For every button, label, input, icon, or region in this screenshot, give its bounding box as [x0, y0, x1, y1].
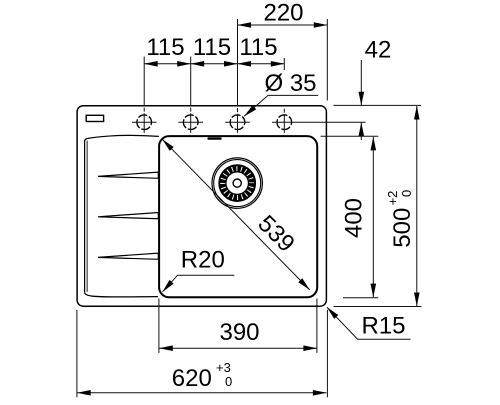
reference line sink bottom (500) [334, 306, 422, 308]
extension line above tap hole 1 [143, 57, 145, 133]
extension line above tap hole 3 (to 220 dim) [237, 19, 239, 133]
drain strainer center hole [233, 179, 241, 187]
overflow tick mark [207, 137, 221, 139]
dimension 220 line [238, 24, 328, 26]
svg-text:+2: +2 [385, 191, 400, 206]
svg-text:+3: +3 [216, 360, 231, 375]
tap hole 4 [277, 115, 292, 130]
drainer recess left inner edge [86, 141, 88, 292]
svg-text:115: 115 [146, 34, 184, 61]
drain strainer teeth [222, 168, 252, 198]
drainer recess top and left outer edge [85, 135, 159, 292]
tap hole 2 [183, 115, 198, 130]
dimension 539 diagonal line [162, 139, 309, 290]
diameter 35 leader [244, 95, 318, 116]
tap hole 4 horizontal centerline extended right (42 dim reference) [272, 121, 366, 123]
dimension 400 line [372, 137, 374, 297]
tap hole 4 vertical centerline [283, 109, 285, 133]
svg-text:R20: R20 [181, 246, 225, 273]
dimension 390 right extension [316, 299, 318, 353]
reference line bowl top (400) [321, 135, 379, 137]
svg-text:500: 500 [389, 208, 416, 248]
dimension 115 line segment 2 [191, 63, 238, 65]
reference line sink top edge (42/500) [334, 104, 422, 106]
extension line stub above tap hole 4 [283, 58, 285, 70]
svg-text:220: 220 [263, 0, 303, 26]
svg-text:0: 0 [225, 374, 232, 389]
dimension 220 right extension line [326, 19, 328, 101]
radius R20 leader [163, 275, 235, 292]
drainer groove 1 [98, 172, 158, 178]
dimension 42 lower line with up arrow [360, 123, 362, 140]
dimension 115 line segment 3 [238, 63, 285, 65]
drain strainer teeth ring outer [219, 165, 255, 201]
drain strainer outer circle [212, 158, 262, 208]
svg-text:115: 115 [239, 34, 277, 61]
dimension 620 left extension [76, 310, 78, 398]
drainer groove 3 [98, 253, 158, 259]
reference line bowl bottom (400) [343, 297, 378, 299]
extension line above tap hole 2 [190, 57, 192, 133]
svg-text:400: 400 [341, 198, 368, 238]
dimension 620 line [77, 392, 326, 394]
sink outer outline [77, 106, 326, 307]
svg-text:620: 620 [172, 365, 212, 392]
dimension 390 left extension [158, 299, 160, 353]
svg-text:R15: R15 [362, 312, 406, 339]
radius R15 leader [327, 307, 411, 339]
drainer recess bottom edge [85, 293, 158, 297]
dimension 115 line segment 1 [144, 63, 191, 65]
logo rectangle [86, 115, 103, 121]
tap hole 1 [137, 115, 152, 130]
svg-text:Ø 35: Ø 35 [265, 70, 317, 97]
svg-text:115: 115 [193, 34, 231, 61]
dimension 620 right extension [326, 310, 328, 398]
tap hole 3 [230, 115, 245, 130]
svg-text:0: 0 [399, 190, 414, 197]
dimension 390 line [159, 347, 317, 349]
svg-text:390: 390 [219, 319, 259, 346]
drain strainer teeth ring inner [226, 172, 249, 195]
svg-text:42: 42 [365, 37, 392, 64]
drain strainer second circle [214, 160, 261, 207]
bowl outline [159, 136, 317, 297]
drainer groove 2 [98, 213, 158, 219]
dimension 42 upper line with down arrow [360, 60, 362, 105]
dimension 500 line [416, 106, 418, 306]
